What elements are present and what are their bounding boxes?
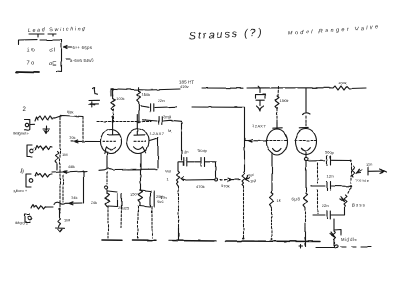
anode resistor R2 120k — [137, 87, 141, 122]
cathode network: dashed drops — [106, 172, 108, 184]
svg-text:M: M — [168, 128, 171, 133]
grid wire into V1a with arrow — [71, 140, 100, 143]
B+ rail — [111, 89, 180, 96]
tube V1b circle — [127, 129, 149, 154]
bypass cap 25u — [108, 191, 122, 207]
input jack 1 — [25, 120, 35, 130]
volume pot I — [177, 162, 179, 171]
svg-text:1k: 1k — [277, 198, 281, 203]
V1b cathode hook — [134, 147, 146, 153]
svg-text:a-6v6 56v0: a-6v6 56v0 — [70, 58, 94, 63]
legend note arrows — [64, 46, 71, 49]
svg-text:11n: 11n — [366, 162, 372, 167]
svg-text:1M: 1M — [62, 152, 68, 157]
svg-text:1M: 1M — [64, 218, 70, 223]
cathode resistor 2k4 — [105, 190, 110, 207]
tube V2b circle — [296, 129, 317, 155]
ground arrow mid — [43, 126, 49, 134]
svg-text:160k: 160k — [142, 92, 151, 97]
svg-text:II: II — [20, 169, 24, 176]
svg-text:22n: 22n — [322, 203, 329, 208]
svg-text:500p: 500p — [198, 148, 208, 153]
svg-text:1M: 1M — [250, 178, 256, 183]
svg-text:12AX7: 12AX7 — [150, 131, 165, 136]
dashed link treble-bass — [350, 163, 352, 184]
svg-text:24k: 24k — [91, 200, 97, 205]
cathode bus — [84, 169, 157, 172]
V + resistor row 2 — [31, 205, 34, 209]
grid stopper V + 68k — [35, 117, 38, 121]
svg-text:100k: 100k — [116, 96, 125, 101]
anode resistor R1 100k — [111, 89, 115, 111]
grid leak 1M channel II — [58, 208, 60, 210]
tube V1a circle — [101, 130, 122, 154]
junction vertical from caps — [181, 122, 183, 161]
feedback vertical — [178, 227, 180, 241]
svg-text:6v+ 66ps: 6v+ 66ps — [72, 45, 92, 50]
svg-text:1 o: 1 o — [27, 48, 35, 54]
svg-text:68k: 68k — [67, 109, 73, 114]
svg-text:22n: 22n — [158, 98, 165, 103]
wire to mixer ch II b — [54, 202, 82, 205]
svg-text:Treble: Treble — [355, 178, 370, 183]
line under legend — [16, 71, 39, 74]
svg-text:Vol: Vol — [248, 172, 254, 177]
svg-text:Micro +: Micro + — [14, 188, 28, 193]
bass pot — [348, 188, 351, 194]
svg-text:Bass: Bass — [352, 203, 366, 208]
V1b grid wire from right — [150, 138, 159, 168]
svg-text:150k: 150k — [280, 98, 289, 103]
svg-text:68k: 68k — [68, 164, 74, 169]
svg-text:150: 150 — [130, 192, 137, 197]
jack 1b — [27, 145, 32, 157]
V1a cathode hook — [104, 147, 115, 153]
svg-text:10k: 10k — [69, 135, 75, 140]
wire to mixer ch II a — [52, 170, 84, 173]
output arrow — [368, 168, 387, 176]
filter cap C (battery-like) top left — [89, 88, 100, 108]
cathode resistor 150R — [138, 190, 143, 206]
svg-text:Vol: Vol — [165, 169, 171, 174]
svg-text:470k: 470k — [196, 184, 205, 189]
tube V2a circle — [267, 129, 288, 155]
svg-text:Magnet+: Magnet+ — [13, 131, 29, 136]
svg-text:100k: 100k — [338, 80, 347, 85]
dashed anode line — [97, 121, 151, 123]
volume pot II — [242, 172, 245, 186]
grid leak 1M channel I — [56, 152, 59, 171]
jack 3 — [26, 174, 31, 187]
svg-text:6n: 6n — [184, 149, 188, 154]
cathode pins — [106, 154, 108, 169]
bus down from jack field — [59, 117, 61, 213]
V2a cathode + 1k — [271, 154, 273, 193]
ground symbol ch II — [56, 228, 65, 232]
middle pot — [334, 219, 341, 235]
bypass cap 25u 6v3 — [140, 190, 155, 207]
ground bus — [102, 239, 122, 241]
svg-text:470k: 470k — [221, 183, 230, 188]
coupling cap 2m2 — [143, 117, 182, 125]
grid wire into V2a — [245, 139, 267, 142]
svg-text:12n: 12n — [327, 174, 334, 179]
legend heading "Lead Switching" — [28, 26, 87, 37]
svg-text:25µ25: 25µ25 — [118, 205, 130, 210]
150k anode resistor V2a — [277, 87, 280, 97]
mixer box verticals — [62, 175, 64, 202]
svg-text:Micro 2: Micro 2 — [15, 220, 29, 225]
svg-text:560p: 560p — [325, 150, 335, 155]
V2b cathode follower out — [305, 153, 307, 158]
svg-text:⊂I: ⊂I — [49, 48, 56, 54]
cap to ground on rail — [256, 86, 266, 105]
svg-text:Middle: Middle — [341, 237, 358, 242]
V2b anode direct to rail — [305, 88, 307, 112]
coupling cap 22n — [141, 104, 154, 111]
jack 4 — [25, 214, 30, 222]
treble pot — [352, 166, 355, 177]
signal wire y107 to V2 — [155, 107, 245, 172]
svg-text:6µ8: 6µ8 — [292, 197, 301, 202]
svg-text:420v: 420v — [180, 84, 189, 89]
V1a and V1b internal grid bars — [103, 140, 146, 142]
dashed drops to ground — [107, 206, 109, 238]
svg-text:o⊑: o⊑ — [49, 61, 57, 67]
tone stack left rail dashes — [317, 190, 319, 213]
svg-text:7 o: 7 o — [27, 61, 35, 67]
legend table box — [19, 40, 62, 72]
anode pins V1 — [108, 116, 120, 135]
grid bars dashed — [266, 140, 288, 142]
svg-text:24k: 24k — [71, 195, 77, 200]
svg-text:10n: 10n — [160, 195, 167, 200]
svg-text:12AX7: 12AX7 — [252, 124, 267, 129]
